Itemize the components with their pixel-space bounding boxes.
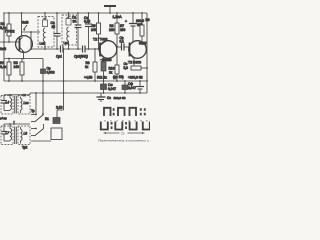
wire top supply rail [3, 12, 147, 14]
node R5 bottom [98, 48, 100, 50]
waveform pulse 1a [104, 108, 111, 116]
node C11 bottom [139, 92, 141, 94]
waveform pulse 2d [143, 122, 150, 130]
capacitor C tank1 [2, 95, 8, 111]
svg-text:240: 240 [14, 65, 20, 69]
wire Cp2 to T2 base [85, 48, 100, 50]
node Cf bottom [124, 92, 126, 94]
node rail drops left resistors [8, 80, 10, 82]
svg-text:Т2 ГТ402: Т2 ГТ402 [93, 38, 108, 42]
shield box L1 dashed [38, 17, 54, 48]
resistor R8 [140, 13, 147, 42]
svg-text:Т3 П403: Т3 П403 [128, 61, 141, 65]
node rail R3 [21, 80, 23, 82]
svg-text:0,4к: 0,4к [0, 65, 7, 69]
node R2 rail [8, 12, 10, 14]
svg-text:Тр: Тр [31, 109, 35, 113]
resistor R10 horizontal [131, 66, 147, 70]
inductor L5 secondary [21, 97, 23, 114]
node R10 right [146, 67, 148, 69]
svg-text:Тр2: Тр2 [22, 146, 28, 150]
waveform colon 2a [111, 122, 113, 129]
node collector junction [30, 31, 32, 33]
svg-text:в+сз: в+сз [0, 117, 7, 121]
svg-text:180: 180 [120, 28, 126, 32]
node L2 bottom [68, 48, 70, 50]
svg-text:Lсв: Lсв [24, 101, 29, 105]
node Tr2 top [13, 123, 15, 125]
phone outline box [51, 128, 62, 140]
capacitor Cp2 [83, 46, 86, 53]
node L1 tap [44, 48, 46, 50]
inductor L7 primary [4, 124, 12, 141]
svg-text:2,1В: 2,1В [56, 106, 63, 110]
wire coupling line [31, 48, 60, 50]
resistor R8 divider [93, 49, 97, 81]
shield box L8 dashed [18, 126, 30, 145]
node R8 rail [141, 12, 143, 14]
wire L1 top to rail [44, 13, 46, 20]
core Tr1 [15, 96, 17, 114]
shield box L2 dashed [62, 15, 77, 45]
inductor L2 [67, 27, 69, 41]
capacitor C10 electrolytic [97, 93, 106, 102]
transistor T2 [99, 41, 117, 62]
wire Cp1 to Cp2 [63, 48, 82, 50]
svg-text:0,047: 0,047 [128, 86, 136, 90]
wire lower rail left step [4, 93, 30, 95]
node Cn rail [77, 12, 79, 14]
svg-text:L8: L8 [24, 132, 28, 136]
svg-text:R11 1к: R11 1к [97, 76, 107, 80]
node switch c2 [35, 128, 37, 130]
svg-text:240: 240 [91, 28, 97, 32]
wire L2 bottom to coupling [68, 41, 70, 49]
waveform pulse 2c [130, 122, 137, 130]
transistor T3 [129, 41, 147, 66]
node Ca bottom [56, 48, 58, 50]
trimmer core L2 [66, 17, 71, 26]
node L7 top [9, 123, 11, 125]
wire emitter T1 [4, 58, 43, 60]
svg-text:Ср1: Ср1 [56, 55, 62, 59]
resistor R6 [115, 13, 119, 47]
wire middle rail [4, 80, 147, 82]
inductor L8 secondary [21, 127, 23, 144]
resistor R5 [97, 13, 101, 49]
capacitor Cp1 [61, 46, 64, 53]
trimmer core L1 [43, 18, 48, 27]
node R5 rail [98, 12, 100, 14]
svg-text:0,047: 0,047 [108, 87, 116, 91]
node output top [63, 48, 65, 50]
capacitor Cp4 [41, 69, 46, 74]
wire Cp4 vertical [42, 59, 44, 115]
phone capsule dark box [53, 118, 60, 124]
node L2 rail [68, 12, 70, 14]
svg-text:Lсв: Lсв [64, 41, 69, 45]
wire T1 collector to L1 [22, 31, 41, 33]
capacitor C100 electrolytic [129, 13, 137, 42]
node L4 top [9, 94, 11, 96]
time axis [104, 132, 145, 134]
resistor R2 [7, 13, 11, 42]
wire output vertical [63, 49, 65, 110]
svg-text:Переключатель в положении и: Переключатель в положении и [98, 139, 149, 143]
node switch c1 [35, 114, 37, 116]
svg-text:6мВ: 6мВ [22, 21, 29, 25]
wire lower rail [30, 92, 147, 94]
shield box L5 dashed [18, 96, 30, 115]
wire switch pole 1 [35, 93, 37, 114]
capacitor Cn [75, 13, 82, 49]
capacitor C11 electrolytic [136, 81, 144, 93]
core Tr2 [15, 127, 17, 145]
inductor L4 primary [4, 95, 12, 111]
switch S2 contacts [31, 124, 44, 136]
wire phone bottom [31, 140, 51, 142]
svg-text:2з: 2з [121, 132, 125, 136]
svg-text:В1: В1 [45, 117, 49, 121]
svg-text:ГТ402: ГТ402 [5, 30, 15, 34]
label 6mV with arrow [22, 21, 29, 32]
waveform colon 2b [125, 122, 127, 129]
node power rail [109, 12, 111, 14]
node Cn bottom [77, 48, 79, 50]
svg-text:5,0: 5,0 [124, 66, 129, 70]
node T1 collector rail [21, 12, 23, 14]
shield box L4 dashed [1, 96, 13, 115]
svg-text:L4: L4 [6, 101, 10, 105]
svg-text:0,15: 0,15 [84, 20, 90, 24]
node base junction [8, 41, 10, 43]
wire L2 top to rail [68, 13, 70, 17]
node input junction [3, 41, 5, 43]
capacitor Cf [122, 81, 128, 93]
shield box L7 dashed [1, 126, 13, 145]
switch S1 contacts [31, 115, 44, 123]
svg-text:220: 220 [109, 28, 115, 32]
node Ca rail [56, 12, 58, 14]
wire base T1 [0, 41, 20, 43]
svg-text:+: + [125, 20, 127, 24]
wire output corner [57, 110, 64, 118]
wire left vertical input [3, 13, 5, 81]
svg-text:+4,5В: +4,5В [84, 76, 92, 80]
label terminal blob [23, 94, 27, 97]
capacitor C9 [101, 81, 107, 93]
resistor R1 [7, 59, 11, 82]
node R8d top [94, 48, 96, 50]
svg-text:30: 30 [73, 20, 77, 24]
wire right edge vertical [146, 13, 148, 93]
svg-text:L7: L7 [6, 131, 10, 135]
resistor R3 [20, 59, 24, 82]
node Cp bottom [88, 48, 90, 50]
resistor R12 divider T3 [115, 47, 119, 81]
node R6 bottom [116, 46, 118, 48]
node R1 top [8, 58, 10, 60]
inductor L1 [43, 28, 45, 42]
node right rails [146, 80, 148, 82]
node Cp4 mid rail [42, 80, 44, 82]
node x63 mid rail [63, 80, 65, 82]
waveform pulse 1c [130, 108, 137, 116]
node switch c1b [42, 113, 44, 115]
resistor R9 [101, 62, 106, 82]
capacitor C tank2 [2, 124, 8, 141]
waveform pulse 1b [118, 108, 125, 116]
node C9 bottom [103, 92, 105, 94]
svg-text:Сэ: Сэ [107, 96, 111, 100]
waveform pulse 2a [101, 122, 108, 130]
node R9 rail [103, 80, 105, 82]
node Cf top [124, 80, 126, 82]
svg-text:0,033: 0,033 [47, 71, 55, 75]
node C11 top [139, 80, 141, 82]
svg-text:Ср2(6Н1): Ср2(6Н1) [74, 55, 88, 59]
waveform colon 1a [113, 108, 115, 115]
power terminal +12V [104, 6, 116, 13]
node Cp4 low rail [42, 92, 44, 94]
svg-text:15: 15 [52, 25, 56, 29]
node R8d bottom [94, 80, 96, 82]
transistor T1 [16, 13, 33, 59]
node R6 rail [116, 12, 118, 14]
wire T2 collector to Cp3 [117, 46, 122, 48]
waveform pulse 2b [115, 122, 122, 130]
svg-text:Lан: Lан [40, 42, 46, 46]
waveform tick labels [104, 118, 148, 122]
node emitter junction [23, 58, 25, 60]
waveform colon 1b [140, 108, 146, 115]
svg-text:R9: R9 [146, 18, 150, 22]
wire down from collector node [30, 32, 32, 50]
node Cp rail [88, 12, 90, 14]
svg-text:(до 1В): (до 1В) [113, 75, 124, 79]
svg-text:+100,0 6В: +100,0 6В [128, 76, 143, 80]
svg-text:1мВ: 1мВ [0, 47, 6, 51]
transformer Tr2 top wire [4, 121, 30, 125]
svg-text:100,0 6В: 100,0 6В [114, 96, 126, 100]
capacitor Cp supply [85, 13, 92, 49]
node pole1 rail [35, 92, 37, 94]
capacitor Cp3 [122, 44, 130, 51]
node L1 rail [44, 12, 46, 14]
wire L1 bottom [44, 42, 46, 49]
node R12 bottom [116, 80, 118, 82]
node x63 low rail [63, 92, 65, 94]
arrow Tr2 feed [13, 121, 15, 124]
capacitor Ca (variable) [54, 13, 61, 49]
node C100 rail [132, 12, 134, 14]
svg-text:0,1: 0,1 [120, 40, 125, 44]
